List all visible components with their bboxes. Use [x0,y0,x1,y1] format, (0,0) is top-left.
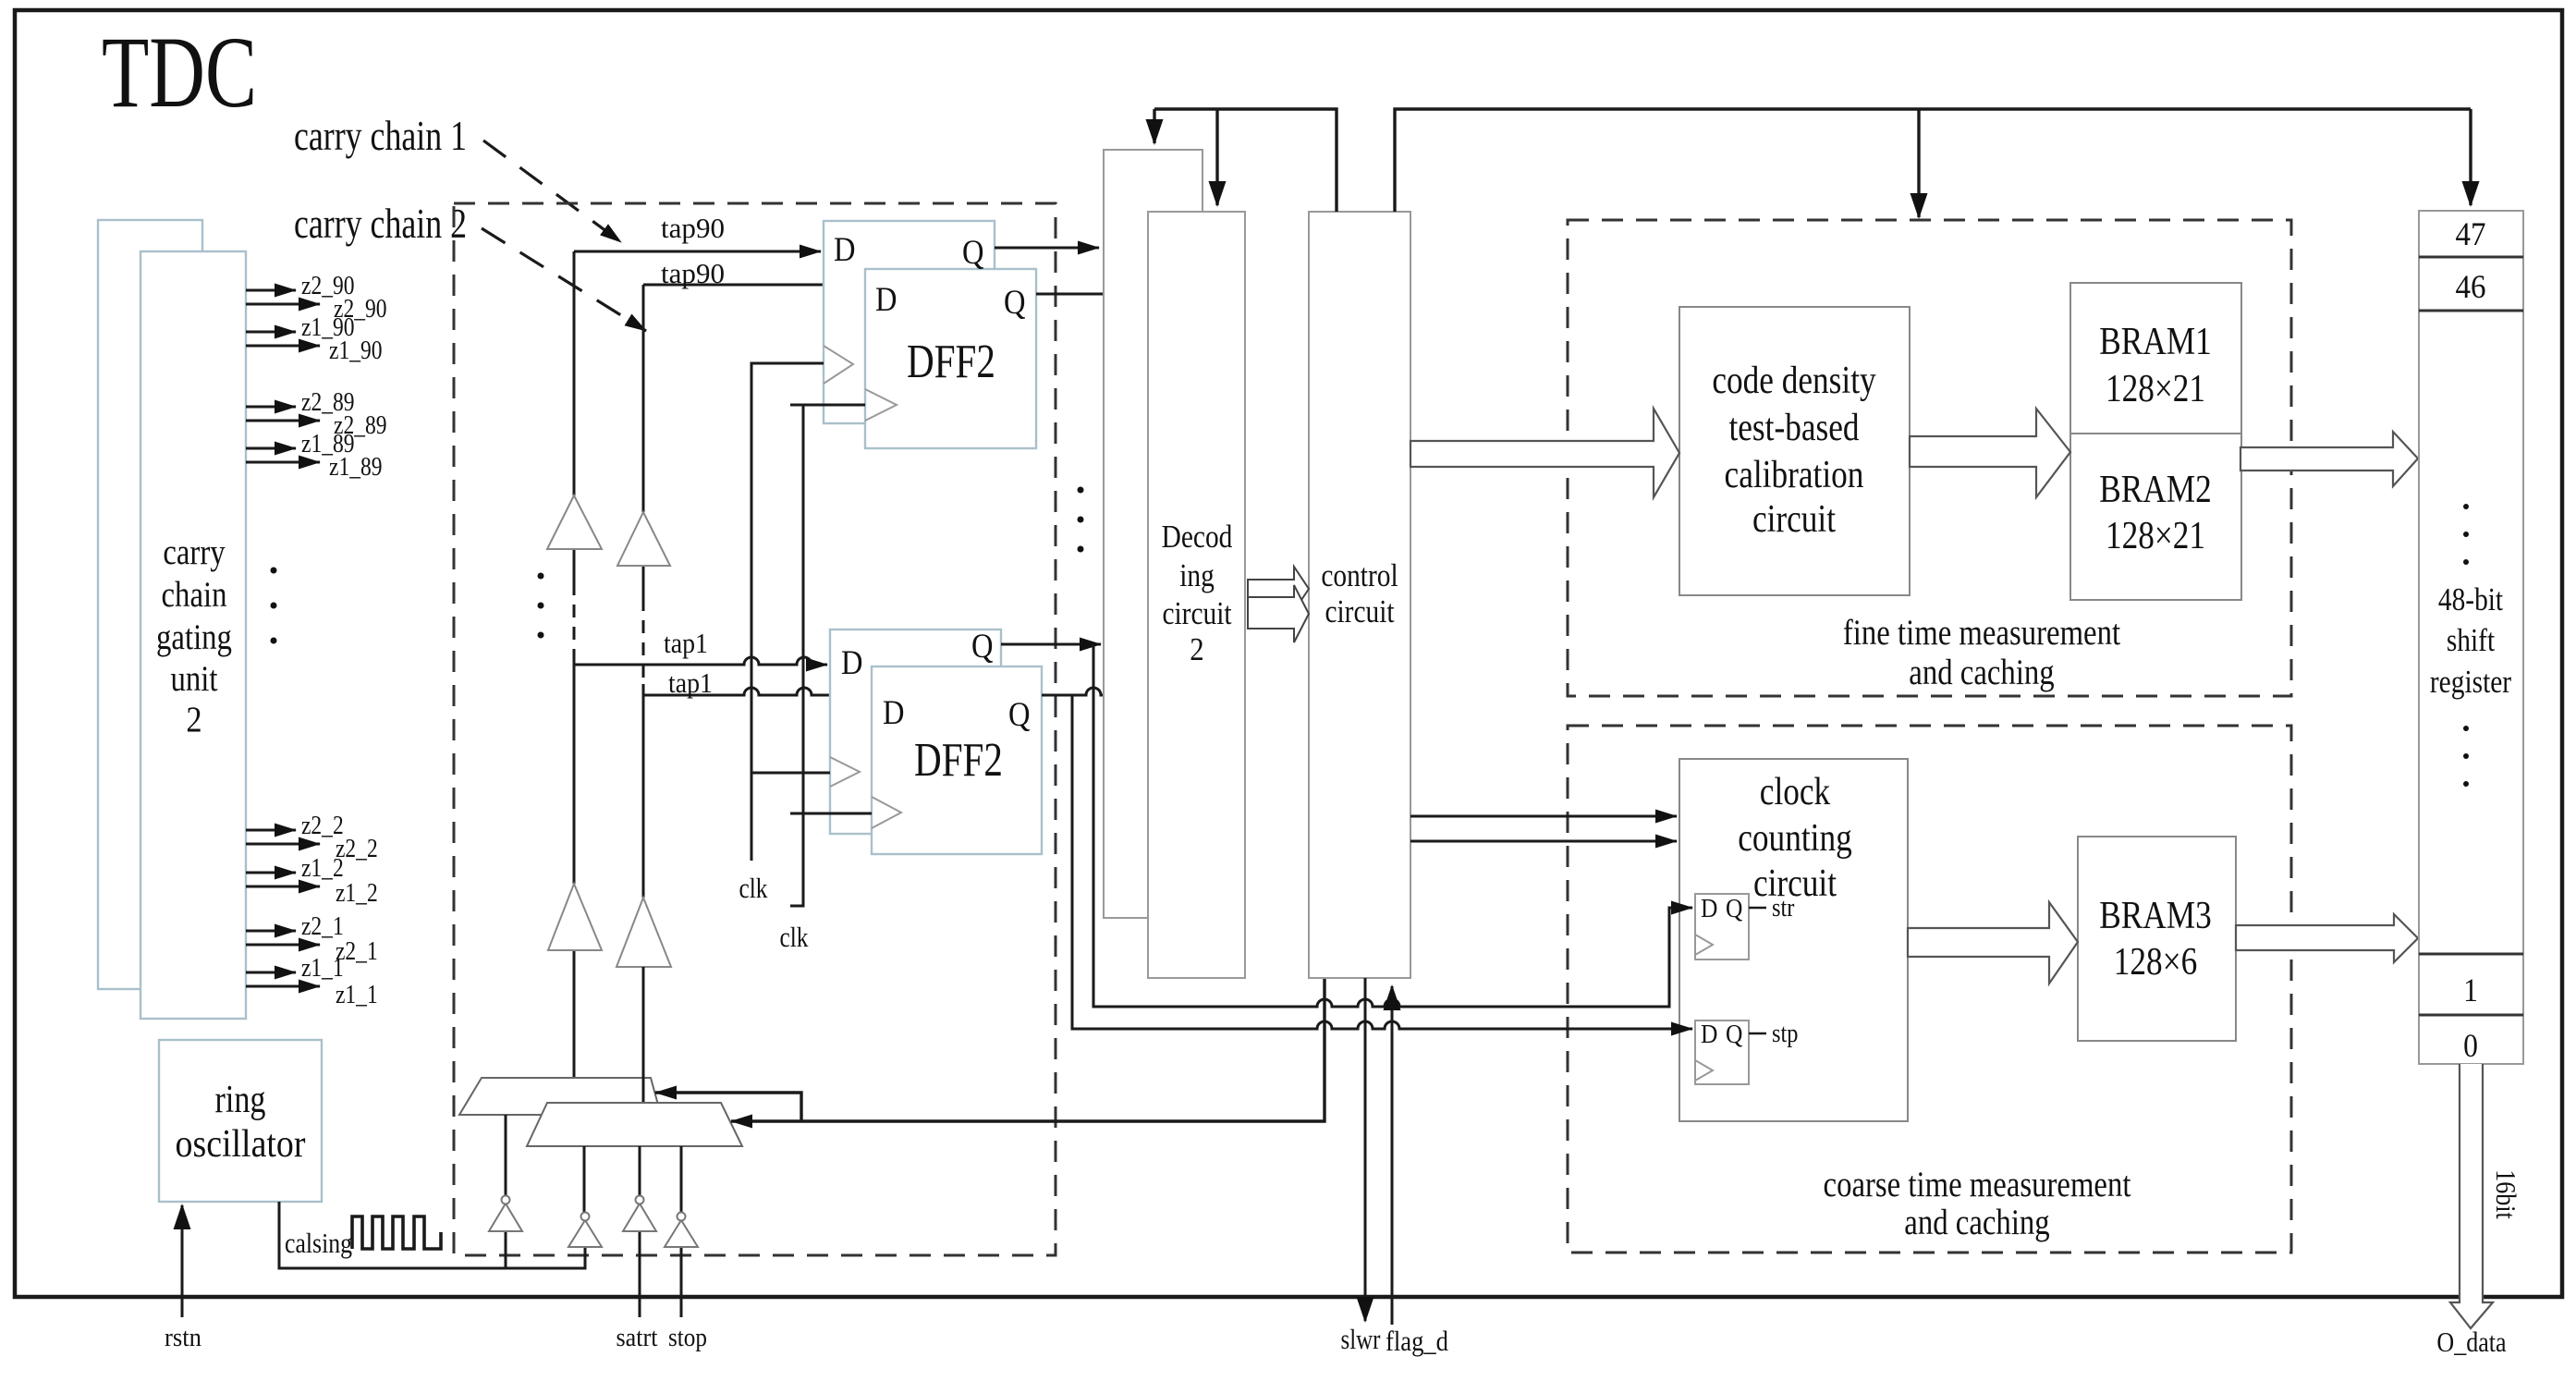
svg-text:oscillator: oscillator [176,1123,306,1166]
svg-text:rstn: rstn [165,1323,201,1352]
svg-text:fine time measurement: fine time measurement [1843,613,2120,653]
svg-text:BRAM1: BRAM1 [2099,321,2212,363]
svg-text:Q: Q [1726,894,1742,923]
svg-text:carry chain 2: carry chain 2 [294,201,467,247]
svg-text:code density: code density [1712,360,1875,402]
svg-text:128×21: 128×21 [2106,368,2205,410]
svg-text:slwr: slwr [1341,1323,1382,1355]
svg-text:shift: shift [2447,622,2496,658]
svg-text:D: D [875,281,897,319]
svg-text:ing: ing [1179,557,1215,593]
svg-text:and caching: and caching [1904,1203,2049,1242]
svg-text:Q: Q [962,234,984,272]
svg-text:z1_1: z1_1 [336,981,378,1009]
svg-text:stp: stp [1772,1019,1798,1048]
svg-text:Q: Q [1008,696,1031,734]
svg-text:BRAM2: BRAM2 [2099,469,2212,511]
svg-text:BRAM3: BRAM3 [2099,895,2212,937]
svg-text:coarse time measurement: coarse time measurement [1824,1165,2131,1204]
svg-text:0: 0 [2463,1027,2478,1064]
svg-text:TDC: TDC [102,16,257,128]
svg-text:16bit: 16bit [2490,1169,2522,1219]
svg-text:clock: clock [1760,771,1830,813]
svg-text:1: 1 [2463,972,2478,1008]
svg-text:DFF2: DFF2 [907,336,995,388]
svg-text:46: 46 [2456,268,2486,305]
svg-text:circuit: circuit [1162,595,1231,631]
svg-text:control: control [1321,557,1398,593]
svg-text:clk: clk [739,872,768,904]
svg-text:ring: ring [215,1079,266,1121]
svg-text:D: D [834,231,856,269]
svg-text:circuit: circuit [1753,862,1837,905]
svg-text:O_data: O_data [2436,1326,2506,1358]
svg-text:D: D [1701,1020,1717,1049]
svg-text:chain: chain [162,575,227,615]
svg-text:2: 2 [186,700,201,739]
svg-text:carry chain 1: carry chain 1 [294,113,467,159]
svg-text:counting: counting [1738,817,1852,860]
svg-text:2: 2 [1190,631,1203,667]
svg-text:128×6: 128×6 [2114,941,2198,984]
svg-text:Q: Q [1004,284,1026,322]
svg-text:DFF2: DFF2 [914,734,1003,787]
svg-text:carry: carry [163,532,226,572]
svg-text:stop: stop [668,1323,707,1352]
svg-text:47: 47 [2456,215,2486,252]
svg-text:tap1: tap1 [668,666,713,699]
svg-text:unit: unit [171,659,218,699]
svg-text:circuit: circuit [1325,593,1394,629]
svg-text:Decod: Decod [1162,519,1233,555]
svg-text:clk: clk [780,921,809,953]
svg-text:Q: Q [971,628,994,666]
svg-text:z1_1: z1_1 [301,954,344,983]
svg-text:satrt: satrt [617,1323,658,1352]
svg-text:test-based: test-based [1728,407,1859,449]
svg-text:calsing: calsing [285,1227,352,1259]
svg-text:z1_89: z1_89 [329,453,383,482]
svg-text:z1_2: z1_2 [336,879,378,908]
svg-text:D: D [1701,894,1717,923]
svg-text:tap1: tap1 [664,627,708,659]
svg-text:circuit: circuit [1752,498,1836,541]
svg-text:register: register [2430,664,2511,700]
svg-text:and caching: and caching [1909,653,2054,692]
svg-text:D: D [883,694,905,732]
svg-text:D: D [841,644,863,682]
svg-text:flag_d: flag_d [1386,1325,1448,1357]
svg-text:Q: Q [1726,1020,1742,1049]
svg-text:tap90: tap90 [661,212,725,244]
svg-text:tap90: tap90 [661,257,725,289]
svg-text:calibration: calibration [1725,454,1864,496]
svg-text:128×21: 128×21 [2106,515,2205,557]
svg-text:48-bit: 48-bit [2438,581,2503,617]
svg-text:z1_90: z1_90 [329,336,383,365]
svg-text:gating: gating [156,617,232,657]
svg-text:str: str [1772,893,1795,923]
